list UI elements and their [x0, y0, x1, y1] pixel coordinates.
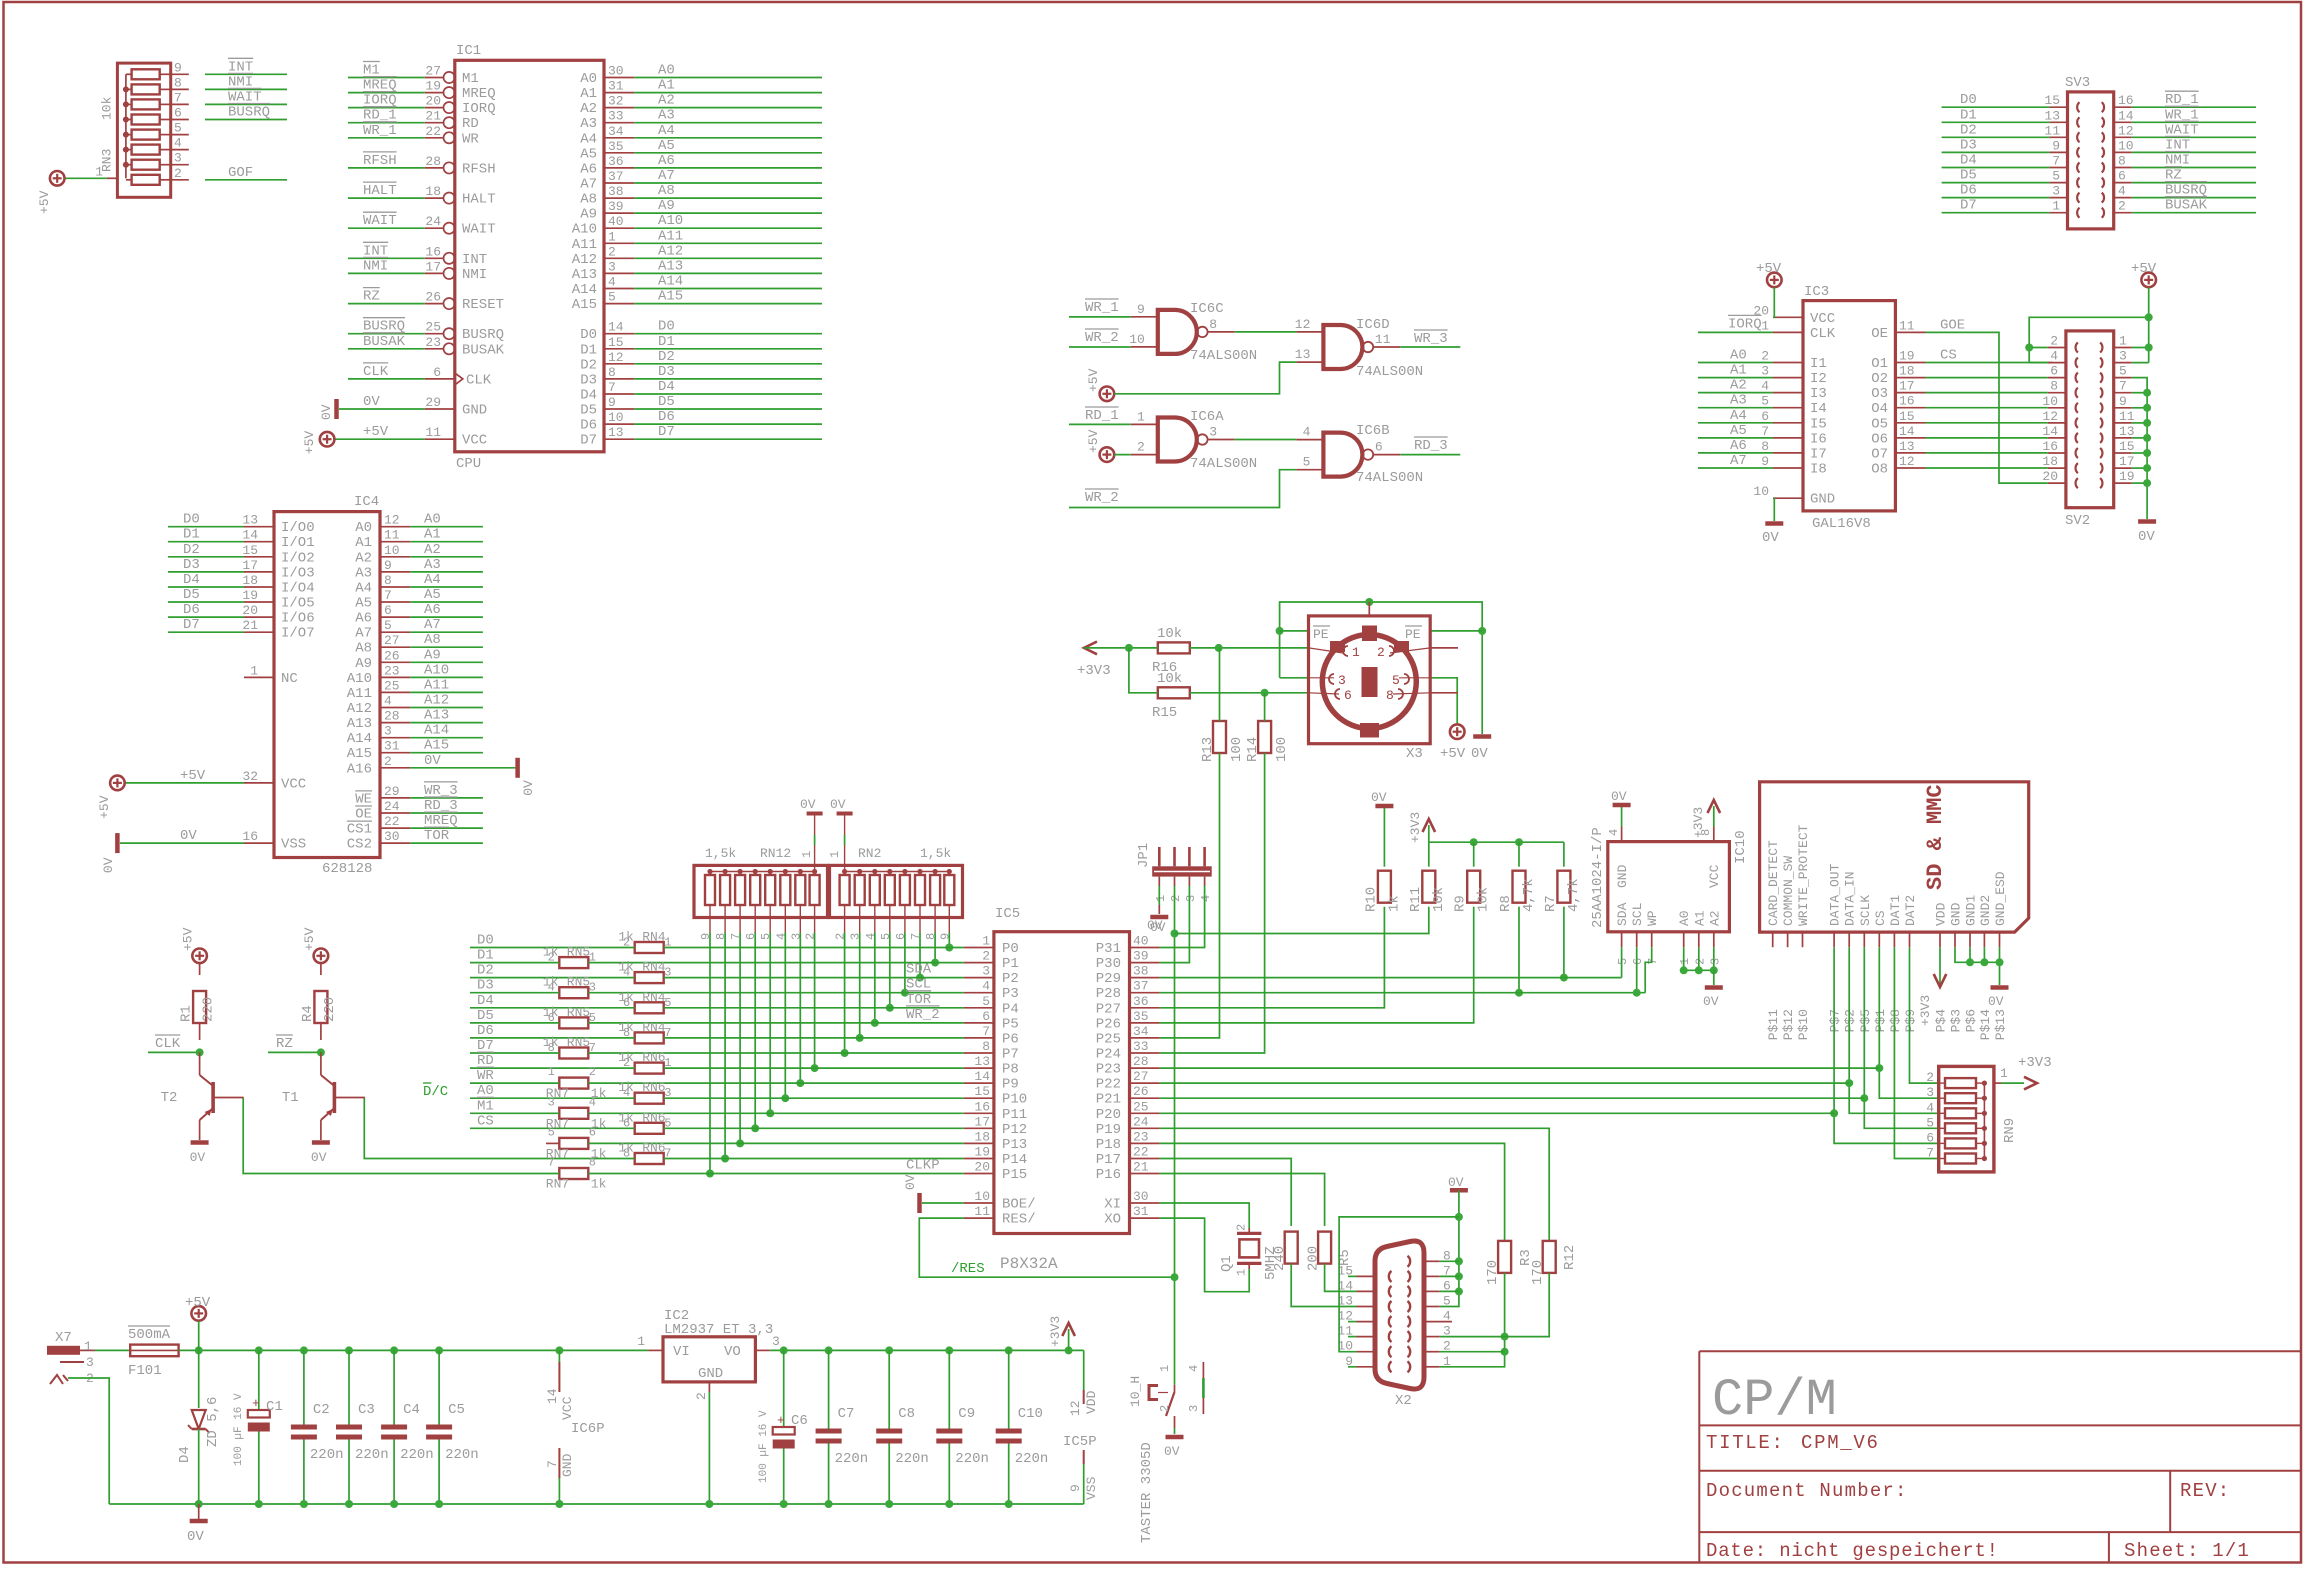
svg-text:30: 30 — [384, 829, 400, 844]
svg-text:A5: A5 — [1730, 423, 1747, 439]
wire net CS from O1 — [1926, 362, 2053, 364]
wire O2 to SV2 — [1926, 377, 2048, 379]
svg-text:A12: A12 — [658, 243, 683, 259]
svg-text:220n: 220n — [955, 1451, 989, 1467]
svg-text:Document Number:: Document Number: — [1706, 1480, 1908, 1502]
svg-text:4: 4 — [982, 979, 990, 994]
svg-text:6: 6 — [1344, 688, 1352, 703]
svg-text:INT: INT — [462, 252, 487, 268]
svg-text:36: 36 — [608, 154, 624, 169]
wire net WAIT — [348, 227, 425, 229]
svg-text:4,7k: 4,7k — [1566, 878, 1582, 912]
svg-text:A10: A10 — [424, 662, 449, 678]
svg-text:3: 3 — [86, 1355, 94, 1370]
svg-text:DAT1: DAT1 — [1888, 895, 1903, 926]
RN9 resistor pin 6 — [1945, 1138, 1976, 1148]
svg-text:P17: P17 — [1096, 1152, 1121, 1168]
wire net A5 — [634, 152, 822, 154]
svg-text:D4: D4 — [580, 388, 597, 404]
svg-text:1,5k: 1,5k — [920, 846, 951, 861]
svg-text:GND: GND — [1615, 864, 1630, 888]
svg-text:8: 8 — [924, 933, 938, 940]
svg-text:P31: P31 — [1096, 941, 1121, 957]
IC5 pin 4 P3 — [964, 992, 994, 994]
svg-text:A0: A0 — [355, 520, 372, 536]
svg-text:RZ: RZ — [276, 1036, 293, 1052]
svg-text:TOR: TOR — [424, 828, 450, 844]
IC1 pin 12 D2 — [604, 363, 634, 365]
svg-text:WRITE_PROTECT: WRITE_PROTECT — [1796, 824, 1811, 926]
svg-text:11: 11 — [1375, 332, 1391, 347]
svg-text:21: 21 — [1133, 1160, 1149, 1175]
wire RN4 to IC5 — [664, 1037, 964, 1039]
svg-text:2: 2 — [608, 244, 616, 259]
IC5 pin 2 P1 — [964, 962, 994, 964]
IC10 pin 2 A1 — [1698, 932, 1700, 947]
svg-text:1: 1 — [2000, 1066, 2008, 1081]
IC1 pin 40 A10 — [604, 227, 634, 229]
svg-text:P15: P15 — [1002, 1167, 1027, 1183]
svg-text:A7: A7 — [1730, 453, 1747, 469]
svg-text:7: 7 — [384, 588, 392, 603]
svg-text:3: 3 — [2119, 349, 2127, 364]
svg-text:WAIT: WAIT — [363, 213, 397, 229]
svg-text:13: 13 — [974, 1054, 990, 1069]
svg-text:D0: D0 — [1960, 92, 1977, 108]
svg-text:1k: 1k — [618, 1110, 634, 1125]
svg-text:A7: A7 — [355, 626, 372, 642]
svg-text:10: 10 — [2118, 138, 2134, 153]
svg-text:D6: D6 — [580, 418, 597, 434]
svg-text:16: 16 — [2118, 93, 2134, 108]
svg-text:NC: NC — [281, 671, 298, 687]
resistor RN7 3-4 1k — [559, 1108, 588, 1119]
RN2 pin1 to ground 0V — [844, 845, 846, 872]
svg-text:P$10: P$10 — [1796, 1009, 1811, 1040]
svg-text:P16: P16 — [1096, 1167, 1121, 1183]
svg-text:GND: GND — [560, 1453, 575, 1477]
svg-text:RD_3: RD_3 — [1414, 438, 1448, 454]
svg-text:4: 4 — [174, 136, 182, 151]
svg-text:D5: D5 — [658, 394, 675, 410]
svg-text:0V: 0V — [180, 828, 197, 844]
svg-text:8: 8 — [608, 365, 616, 380]
IC1 pin 5 A15 — [604, 303, 634, 305]
svg-text:A7: A7 — [580, 177, 597, 193]
svg-text:XO: XO — [1104, 1212, 1121, 1228]
svg-text:1k: 1k — [543, 1005, 559, 1020]
svg-text:VCC: VCC — [462, 433, 487, 449]
svg-text:1k: 1k — [618, 1141, 634, 1156]
svg-text:+5V: +5V — [302, 431, 317, 455]
svg-text:6: 6 — [1631, 958, 1645, 965]
svg-text:P20: P20 — [1096, 1107, 1121, 1123]
svg-text:1: 1 — [608, 229, 616, 244]
svg-text:17: 17 — [425, 259, 441, 274]
svg-text:2: 2 — [1693, 958, 1707, 965]
svg-text:RN3: RN3 — [100, 149, 115, 172]
wire net A0 — [634, 77, 822, 79]
svg-text:SDA: SDA — [906, 962, 932, 978]
svg-text:VCC: VCC — [1810, 311, 1835, 327]
svg-text:7: 7 — [1646, 958, 1660, 965]
X2 pin 11 — [1357, 1336, 1376, 1338]
wire RN7 to IC5 — [588, 1082, 964, 1084]
svg-text:74ALS00N: 74ALS00N — [1356, 364, 1423, 380]
svg-text:220n: 220n — [1015, 1451, 1049, 1467]
IC3 pin 15 O5 — [1895, 422, 1925, 424]
X2 pin 1 — [1424, 1366, 1440, 1368]
svg-text:2: 2 — [384, 754, 392, 769]
svg-text:P24: P24 — [1096, 1047, 1121, 1063]
svg-text:D4: D4 — [1960, 153, 1977, 169]
svg-text:1k: 1k — [543, 945, 559, 960]
wire RN5 to IC5 — [588, 1022, 964, 1024]
svg-text:P3: P3 — [1002, 986, 1019, 1002]
svg-text:A15: A15 — [572, 297, 597, 313]
svg-text:A9: A9 — [580, 207, 597, 223]
wire net HALT — [348, 197, 425, 199]
svg-text:2: 2 — [694, 1392, 709, 1400]
svg-text:P$2: P$2 — [1843, 1009, 1858, 1032]
svg-text:4: 4 — [589, 1095, 596, 1109]
svg-text:1: 1 — [84, 1339, 92, 1354]
svg-text:PE: PE — [1313, 627, 1329, 642]
svg-text:SDA: SDA — [1615, 902, 1630, 926]
SD pin P$12 COMMON_SW — [1787, 932, 1789, 947]
svg-text:COMMON_SW: COMMON_SW — [1781, 856, 1796, 926]
IC5 pin 17 P12 — [964, 1127, 994, 1129]
svg-text:4: 4 — [2050, 349, 2058, 364]
svg-text:3: 3 — [1761, 364, 1769, 379]
IC1 pin 39 A9 — [604, 212, 634, 214]
svg-text:SCL: SCL — [1630, 903, 1645, 926]
svg-text:27: 27 — [1133, 1069, 1149, 1084]
svg-text:O7: O7 — [1871, 446, 1888, 462]
svg-text:20: 20 — [2042, 469, 2058, 484]
wire R14 to IC5 pin33 — [1160, 753, 1265, 1053]
svg-text:GND: GND — [1949, 902, 1964, 926]
IC3 pin 2 I1 / net A0 — [1773, 362, 1803, 364]
svg-text:0V: 0V — [830, 797, 846, 812]
wire +5V loop to SV2 pins 2,4 — [2029, 347, 2048, 349]
net arrow +3V3 above IC10 — [1713, 806, 1715, 827]
resistor RN5 3-4 1k — [559, 987, 588, 998]
svg-text:4: 4 — [1443, 1309, 1451, 1324]
wire from T1 to RN6 7-8 — [364, 1098, 634, 1159]
RN9 pin1 to +3V3 arrow right — [1994, 1082, 2001, 1084]
SV3 pin 3 / pin 4 — [2049, 197, 2067, 199]
svg-text:O8: O8 — [1871, 462, 1888, 478]
IC5 pin 13 P8 — [964, 1067, 994, 1069]
SD pin P$14 GND2 — [1983, 932, 1985, 947]
svg-text:1: 1 — [800, 851, 814, 858]
resistor 200 R5 for sync — [1160, 1174, 1325, 1227]
resistor network RN3 — [117, 63, 170, 197]
IC4 pin 26 A9 — [380, 661, 410, 663]
wire RN4 to IC5 — [664, 947, 964, 949]
wire net 0V at A16 — [410, 767, 515, 769]
zener diode D4 ZD 5,6 — [198, 1350, 200, 1408]
svg-text:2: 2 — [2050, 334, 2058, 349]
wire net D6 — [168, 616, 244, 618]
wire net A8 — [410, 646, 483, 648]
IC4 pin 19 I/O5 — [244, 601, 274, 603]
svg-text:RN7: RN7 — [546, 1177, 569, 1192]
svg-text:D4: D4 — [177, 1446, 193, 1463]
svg-text:9: 9 — [938, 933, 952, 940]
svg-text:RN5: RN5 — [567, 1035, 590, 1050]
net arrow +3V3 on rail — [1068, 1329, 1070, 1350]
svg-text:11: 11 — [2119, 409, 2135, 424]
svg-text:OE: OE — [355, 807, 372, 823]
svg-text:38: 38 — [1133, 964, 1149, 979]
X2 pin 15 — [1357, 1275, 1376, 1277]
svg-text:D4: D4 — [183, 572, 200, 588]
IC2 pin 3 VO — [755, 1349, 769, 1351]
svg-text:0V: 0V — [1762, 530, 1779, 546]
svg-text:35: 35 — [608, 139, 624, 154]
svg-text:ZD 5,6: ZD 5,6 — [205, 1397, 221, 1447]
SD pin P$8 DAT1 — [1893, 932, 1895, 947]
resistor RN4 1-2 1k — [635, 942, 664, 953]
svg-text:1: 1 — [548, 1065, 555, 1079]
title block frame — [1699, 1350, 2301, 1352]
svg-text:+5V: +5V — [302, 927, 317, 951]
svg-text:20: 20 — [425, 94, 441, 109]
svg-text:P19: P19 — [1096, 1122, 1121, 1138]
svg-text:WR_3: WR_3 — [1414, 331, 1448, 347]
wire net D1 — [1942, 121, 2050, 123]
IC1 pin 22 WR — [425, 137, 444, 139]
IC5 pin 40 P31 — [1130, 947, 1160, 949]
svg-text:14: 14 — [242, 528, 258, 543]
svg-text:5: 5 — [759, 933, 773, 940]
IC5 pin 38 P29 — [1130, 977, 1160, 979]
svg-text:I/O6: I/O6 — [281, 611, 315, 627]
resistor network RN12 — [694, 865, 828, 917]
svg-text:7: 7 — [982, 1024, 990, 1039]
wire +5V rail — [179, 1349, 649, 1351]
svg-text:13: 13 — [2119, 424, 2135, 439]
svg-text:GND_ESD: GND_ESD — [1993, 871, 2008, 926]
svg-text:A2: A2 — [580, 101, 597, 117]
wire net D0 — [1942, 106, 2050, 108]
svg-text:IC6A: IC6A — [1190, 409, 1224, 425]
svg-text:D4: D4 — [477, 993, 494, 1009]
IC IC3 GAL16V8 — [1803, 301, 1895, 511]
resistor R13 100 — [1213, 721, 1226, 753]
svg-text:CLK: CLK — [155, 1036, 181, 1052]
svg-text:220n: 220n — [835, 1451, 869, 1467]
svg-text:24: 24 — [384, 799, 400, 814]
power +5V symbol on rail — [191, 1306, 206, 1321]
svg-text:15: 15 — [608, 335, 624, 350]
IC5 pin 24 P19 — [1130, 1127, 1160, 1129]
svg-text:P$14: P$14 — [1978, 1009, 1993, 1040]
SV2 pin 2 / pin 1 — [2048, 347, 2066, 349]
svg-text:4: 4 — [1303, 425, 1311, 440]
X2 pin 2 — [1424, 1351, 1440, 1353]
svg-text:3: 3 — [1926, 1085, 1934, 1100]
svg-text:D7: D7 — [1960, 198, 1977, 214]
IC1 pin 21 RD — [425, 122, 444, 124]
svg-text:1: 1 — [828, 851, 842, 858]
wire 0V top rail of X3 — [1280, 602, 1483, 734]
svg-text:A6: A6 — [424, 602, 441, 618]
svg-text:RZ: RZ — [363, 289, 380, 305]
wire net D1 — [168, 541, 244, 543]
IC3 pin 16 O4 — [1895, 407, 1925, 409]
SV2 pin 8 / pin 7 — [2048, 392, 2066, 394]
svg-text:P$7: P$7 — [1828, 1009, 1843, 1032]
svg-text:6: 6 — [894, 933, 908, 940]
svg-text:+3V3: +3V3 — [2018, 1055, 2052, 1071]
svg-text:1: 1 — [982, 934, 990, 949]
svg-text:RN6: RN6 — [642, 1141, 665, 1156]
wire net D1 — [634, 348, 822, 350]
wire +3V3 rail above pullups — [1429, 841, 1564, 843]
svg-text:I3: I3 — [1810, 386, 1827, 402]
net arrow +3V3 left — [1084, 642, 1097, 655]
wire IC6A out to IC6B in — [1235, 439, 1297, 441]
wire net D4 — [634, 393, 822, 395]
svg-text:D3: D3 — [1960, 137, 1977, 153]
svg-text:10: 10 — [2042, 394, 2058, 409]
wire net RD_1 — [348, 122, 425, 124]
resistor R16 10k — [1158, 642, 1190, 653]
IC5 pin 30 XI — [1130, 1202, 1160, 1204]
svg-text:CARD_DETECT: CARD_DETECT — [1766, 840, 1781, 926]
svg-text:WR_2: WR_2 — [906, 1007, 940, 1023]
wire net RZ — [268, 1051, 321, 1053]
svg-text:D7: D7 — [183, 617, 200, 633]
svg-text:0V: 0V — [1988, 994, 2004, 1009]
svg-text:0V: 0V — [190, 1150, 206, 1165]
svg-text:I/O7: I/O7 — [281, 626, 315, 642]
svg-text:A0: A0 — [1730, 348, 1747, 364]
svg-text:RFSH: RFSH — [363, 153, 397, 169]
svg-text:34: 34 — [608, 124, 624, 139]
resistor RN7 1-2 1k — [559, 1078, 588, 1089]
IC3 pin 20 VCC — [1773, 316, 1803, 318]
svg-text:RN5: RN5 — [567, 975, 590, 990]
IC1 pin 13 D7 — [604, 438, 634, 440]
svg-text:R15: R15 — [1152, 705, 1177, 721]
ground 0V above R10 — [1375, 804, 1393, 809]
resistor RN5 7-8 1k — [559, 1048, 588, 1059]
wire net D7 — [1942, 212, 2050, 214]
IC4 pin 30 CS2 — [380, 842, 410, 844]
X3 PE pins to 0V — [1280, 630, 1309, 632]
X2 pin 3 — [1424, 1336, 1440, 1338]
wire net A13 — [634, 272, 822, 274]
svg-text:5: 5 — [1926, 1115, 1934, 1130]
svg-text:5: 5 — [1303, 455, 1311, 470]
svg-text:A8: A8 — [580, 192, 597, 208]
resistor R8 — [1513, 871, 1526, 903]
svg-text:RN2: RN2 — [858, 846, 881, 861]
wire RN5 to IC5 — [588, 962, 964, 964]
svg-text:5: 5 — [1392, 673, 1400, 688]
ground 0V below SD — [1991, 985, 2009, 990]
svg-text:15: 15 — [2044, 93, 2060, 108]
IC1 pin 17 NMI — [425, 272, 444, 274]
svg-text:2: 2 — [1137, 440, 1145, 455]
svg-text:4,7k: 4,7k — [1521, 878, 1537, 912]
wire net D2 — [1942, 136, 2050, 138]
svg-text:12: 12 — [1295, 317, 1311, 332]
svg-text:1: 1 — [1352, 645, 1360, 660]
svg-text:0V: 0V — [521, 780, 536, 796]
wire net SCL row — [1160, 992, 1646, 994]
svg-text:17: 17 — [2119, 454, 2135, 469]
svg-text:1k: 1k — [618, 960, 634, 975]
svg-text:1: 1 — [637, 1334, 645, 1349]
svg-text:0V: 0V — [1611, 789, 1627, 804]
svg-text:A2: A2 — [424, 542, 441, 558]
svg-text:X7: X7 — [55, 1330, 72, 1346]
SV3 pin 11 / pin 12 — [2049, 136, 2067, 138]
svg-text:CPU: CPU — [456, 456, 481, 472]
X2 pin 6 — [1424, 1290, 1440, 1292]
resistor RN4 3-4 1k — [635, 972, 664, 983]
svg-text:10: 10 — [608, 410, 624, 425]
svg-text:24: 24 — [425, 214, 441, 229]
svg-text:A13: A13 — [572, 267, 597, 283]
svg-text:A4: A4 — [658, 123, 675, 139]
svg-text:15: 15 — [974, 1084, 990, 1099]
wire net A2 — [634, 107, 822, 109]
svg-text:P26: P26 — [1096, 1016, 1121, 1032]
IC1 pin 10 D6 — [604, 423, 634, 425]
svg-text:A7: A7 — [424, 617, 441, 633]
svg-text:100 µF 16 V: 100 µF 16 V — [233, 1393, 245, 1466]
svg-text:31: 31 — [608, 79, 624, 94]
IC3 pin 14 O6 — [1895, 437, 1925, 439]
capacitor C5 220n — [438, 1350, 440, 1424]
IC1 pin 7 D4 — [604, 393, 634, 395]
RN2 verticals to IC5 rows P0..P7 — [948, 933, 950, 948]
svg-text:+: + — [777, 1413, 785, 1428]
svg-text:2: 2 — [982, 949, 990, 964]
svg-text:T2: T2 — [161, 1090, 178, 1106]
svg-text:P27: P27 — [1096, 1001, 1121, 1017]
svg-text:0V: 0V — [1703, 994, 1719, 1009]
svg-text:1k: 1k — [618, 990, 634, 1005]
wire net M1 — [348, 77, 425, 79]
svg-text:JP1: JP1 — [1136, 843, 1152, 868]
svg-text:+5V: +5V — [1086, 368, 1101, 392]
svg-text:9: 9 — [1137, 302, 1145, 317]
wire net A6 — [634, 167, 822, 169]
wire net RD_1 — [1069, 423, 1131, 425]
wire 0V chain on SV2 odd pins — [2132, 378, 2147, 519]
svg-text:5: 5 — [1761, 394, 1769, 409]
svg-text:R11: R11 — [1408, 887, 1424, 912]
svg-text:WR_2: WR_2 — [1085, 330, 1119, 346]
IC1 pin 25 BUSRQ — [425, 333, 444, 335]
svg-text:15: 15 — [242, 543, 258, 558]
wire net WR_1 — [1069, 316, 1131, 318]
wire net WR_1 — [348, 137, 425, 139]
connector X3 Mini-DIN — [1309, 616, 1431, 744]
wire net A15 — [410, 752, 483, 754]
ground 0V at X2 — [1450, 1188, 1468, 1193]
svg-text:D6: D6 — [183, 602, 200, 618]
wire net A10 — [410, 676, 483, 678]
svg-text:RD: RD — [462, 116, 479, 132]
